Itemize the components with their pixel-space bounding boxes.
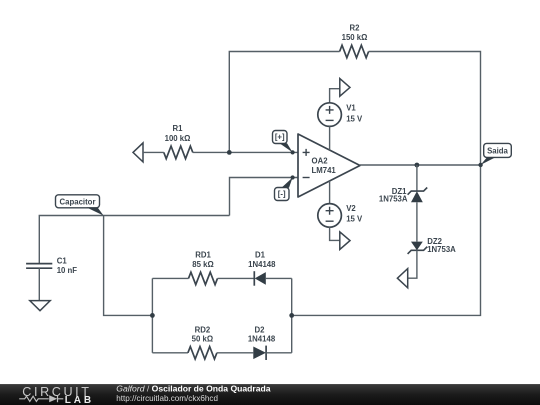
wire: RD1 to D1 (218, 277, 255, 279)
resistor RD1 (189, 272, 218, 284)
wire: left vertical of diode network (151, 278, 153, 352)
wire: V1 to op-amp top (329, 126, 331, 150)
wire: op-amp bottom to V2 (329, 181, 331, 204)
wire: top branch left (152, 277, 188, 279)
svg-text:D2: D2 (255, 326, 266, 335)
footer bar (0, 384, 540, 405)
svg-text:RD1: RD1 (195, 251, 211, 260)
wire: input flag to R1 (143, 151, 164, 153)
junction: left diode network node (150, 313, 155, 318)
wire: capacitor to ground (38, 268, 40, 300)
flag [+] (273, 131, 288, 144)
junction: right diode network node (289, 313, 294, 318)
svg-text:15 V: 15 V (346, 215, 363, 224)
wire: top loop right of R2, right vertical, bottom horizontal (292, 52, 481, 316)
flag Saida tail (481, 157, 496, 165)
svg-text:V1: V1 (346, 103, 356, 112)
wire: between DZ1 and DZ2 (416, 202, 418, 241)
flag Capacitor (56, 195, 100, 208)
flag Saida (484, 143, 512, 157)
svg-text:OA2: OA2 (312, 157, 329, 166)
wire: bottom branch left (152, 352, 188, 354)
wire: zener chain bottom to arrow (408, 250, 417, 278)
V2 node arrow (340, 232, 350, 250)
svg-text:Saida: Saida (487, 146, 508, 155)
svg-text:1N4148: 1N4148 (248, 335, 276, 344)
flag Capacitor tail (87, 207, 104, 215)
svg-text:85 kΩ: 85 kΩ (192, 260, 213, 269)
svg-text:Galford / Oscilador de Onda Qu: Galford / Oscilador de Onda Quadrada (116, 383, 270, 393)
wire: right vertical of diode network (291, 278, 293, 352)
resistor R1 (164, 146, 193, 159)
svg-text:1N753A: 1N753A (427, 245, 456, 254)
zener diode DZ1 (pointing up) (408, 187, 428, 194)
svg-text:1N4148: 1N4148 (248, 260, 276, 269)
svg-text:R2: R2 (350, 24, 361, 33)
op-amp OA2 LM741 (298, 134, 360, 197)
svg-text:10 nF: 10 nF (57, 266, 78, 275)
svg-text:R1: R1 (173, 124, 184, 133)
svg-text:150 kΩ: 150 kΩ (342, 33, 368, 42)
wire: D1 to right vertical (266, 277, 292, 279)
svg-text:15 V: 15 V (346, 114, 363, 123)
wire: RD2 to D2 (217, 352, 253, 354)
svg-text:http://circuitlab.com/ckx6hcd: http://circuitlab.com/ckx6hcd (116, 394, 218, 403)
svg-text:V2: V2 (346, 204, 356, 213)
wire: feedback vertical from top loop to [+] node (229, 52, 339, 153)
junction: Saida node (478, 163, 482, 167)
svg-text:100 kΩ: 100 kΩ (165, 134, 191, 143)
svg-text:[-]: [-] (278, 190, 286, 199)
voltage source V1 (318, 103, 342, 127)
diode D2 (pointing right) (253, 347, 266, 360)
wire: op-amp minus input to left and down (230, 178, 299, 216)
wire: zener chain top (416, 165, 418, 191)
svg-text:RD2: RD2 (195, 326, 211, 335)
svg-text:1N753A: 1N753A (379, 194, 408, 203)
resistor R2 (340, 45, 369, 58)
wire: D2 to right vertical (266, 352, 292, 354)
svg-text:Capacitor: Capacitor (60, 197, 96, 206)
svg-text:D1: D1 (255, 251, 266, 260)
junction: output/zener node (415, 163, 420, 168)
wire: V2 bottom to node arrow (330, 227, 340, 240)
flag [-] tail (282, 178, 293, 188)
zener end node arrow (397, 269, 407, 288)
svg-text:LAB: LAB (65, 395, 94, 405)
zener diode DZ2 (pointing down) (411, 242, 423, 251)
wire: op-amp output (360, 164, 481, 166)
wire: capacitor node horizontal (39, 216, 229, 264)
flag [+] tail (280, 143, 293, 152)
input flag arrow (left of R1) (133, 143, 143, 162)
wire: capacitor node down to diode network (104, 216, 153, 316)
svg-text:LM741: LM741 (312, 166, 337, 175)
capacitor C1 (26, 264, 52, 269)
wire: R1 to op-amp plus input (193, 151, 298, 153)
ground symbol (30, 301, 50, 311)
logo zigzag-diode icon (19, 396, 48, 401)
svg-text:C1: C1 (57, 256, 68, 265)
flag [-] (275, 188, 290, 201)
junction: R1/feedback node (227, 150, 232, 155)
voltage source V2 (318, 204, 342, 228)
wire: V1 top to node arrow (330, 89, 340, 103)
svg-text:50 kΩ: 50 kΩ (192, 335, 213, 344)
diode D1 (pointing left) (253, 271, 255, 286)
svg-text:[+]: [+] (275, 133, 285, 142)
resistor RD2 (188, 347, 217, 359)
V1 node arrow (340, 79, 350, 97)
